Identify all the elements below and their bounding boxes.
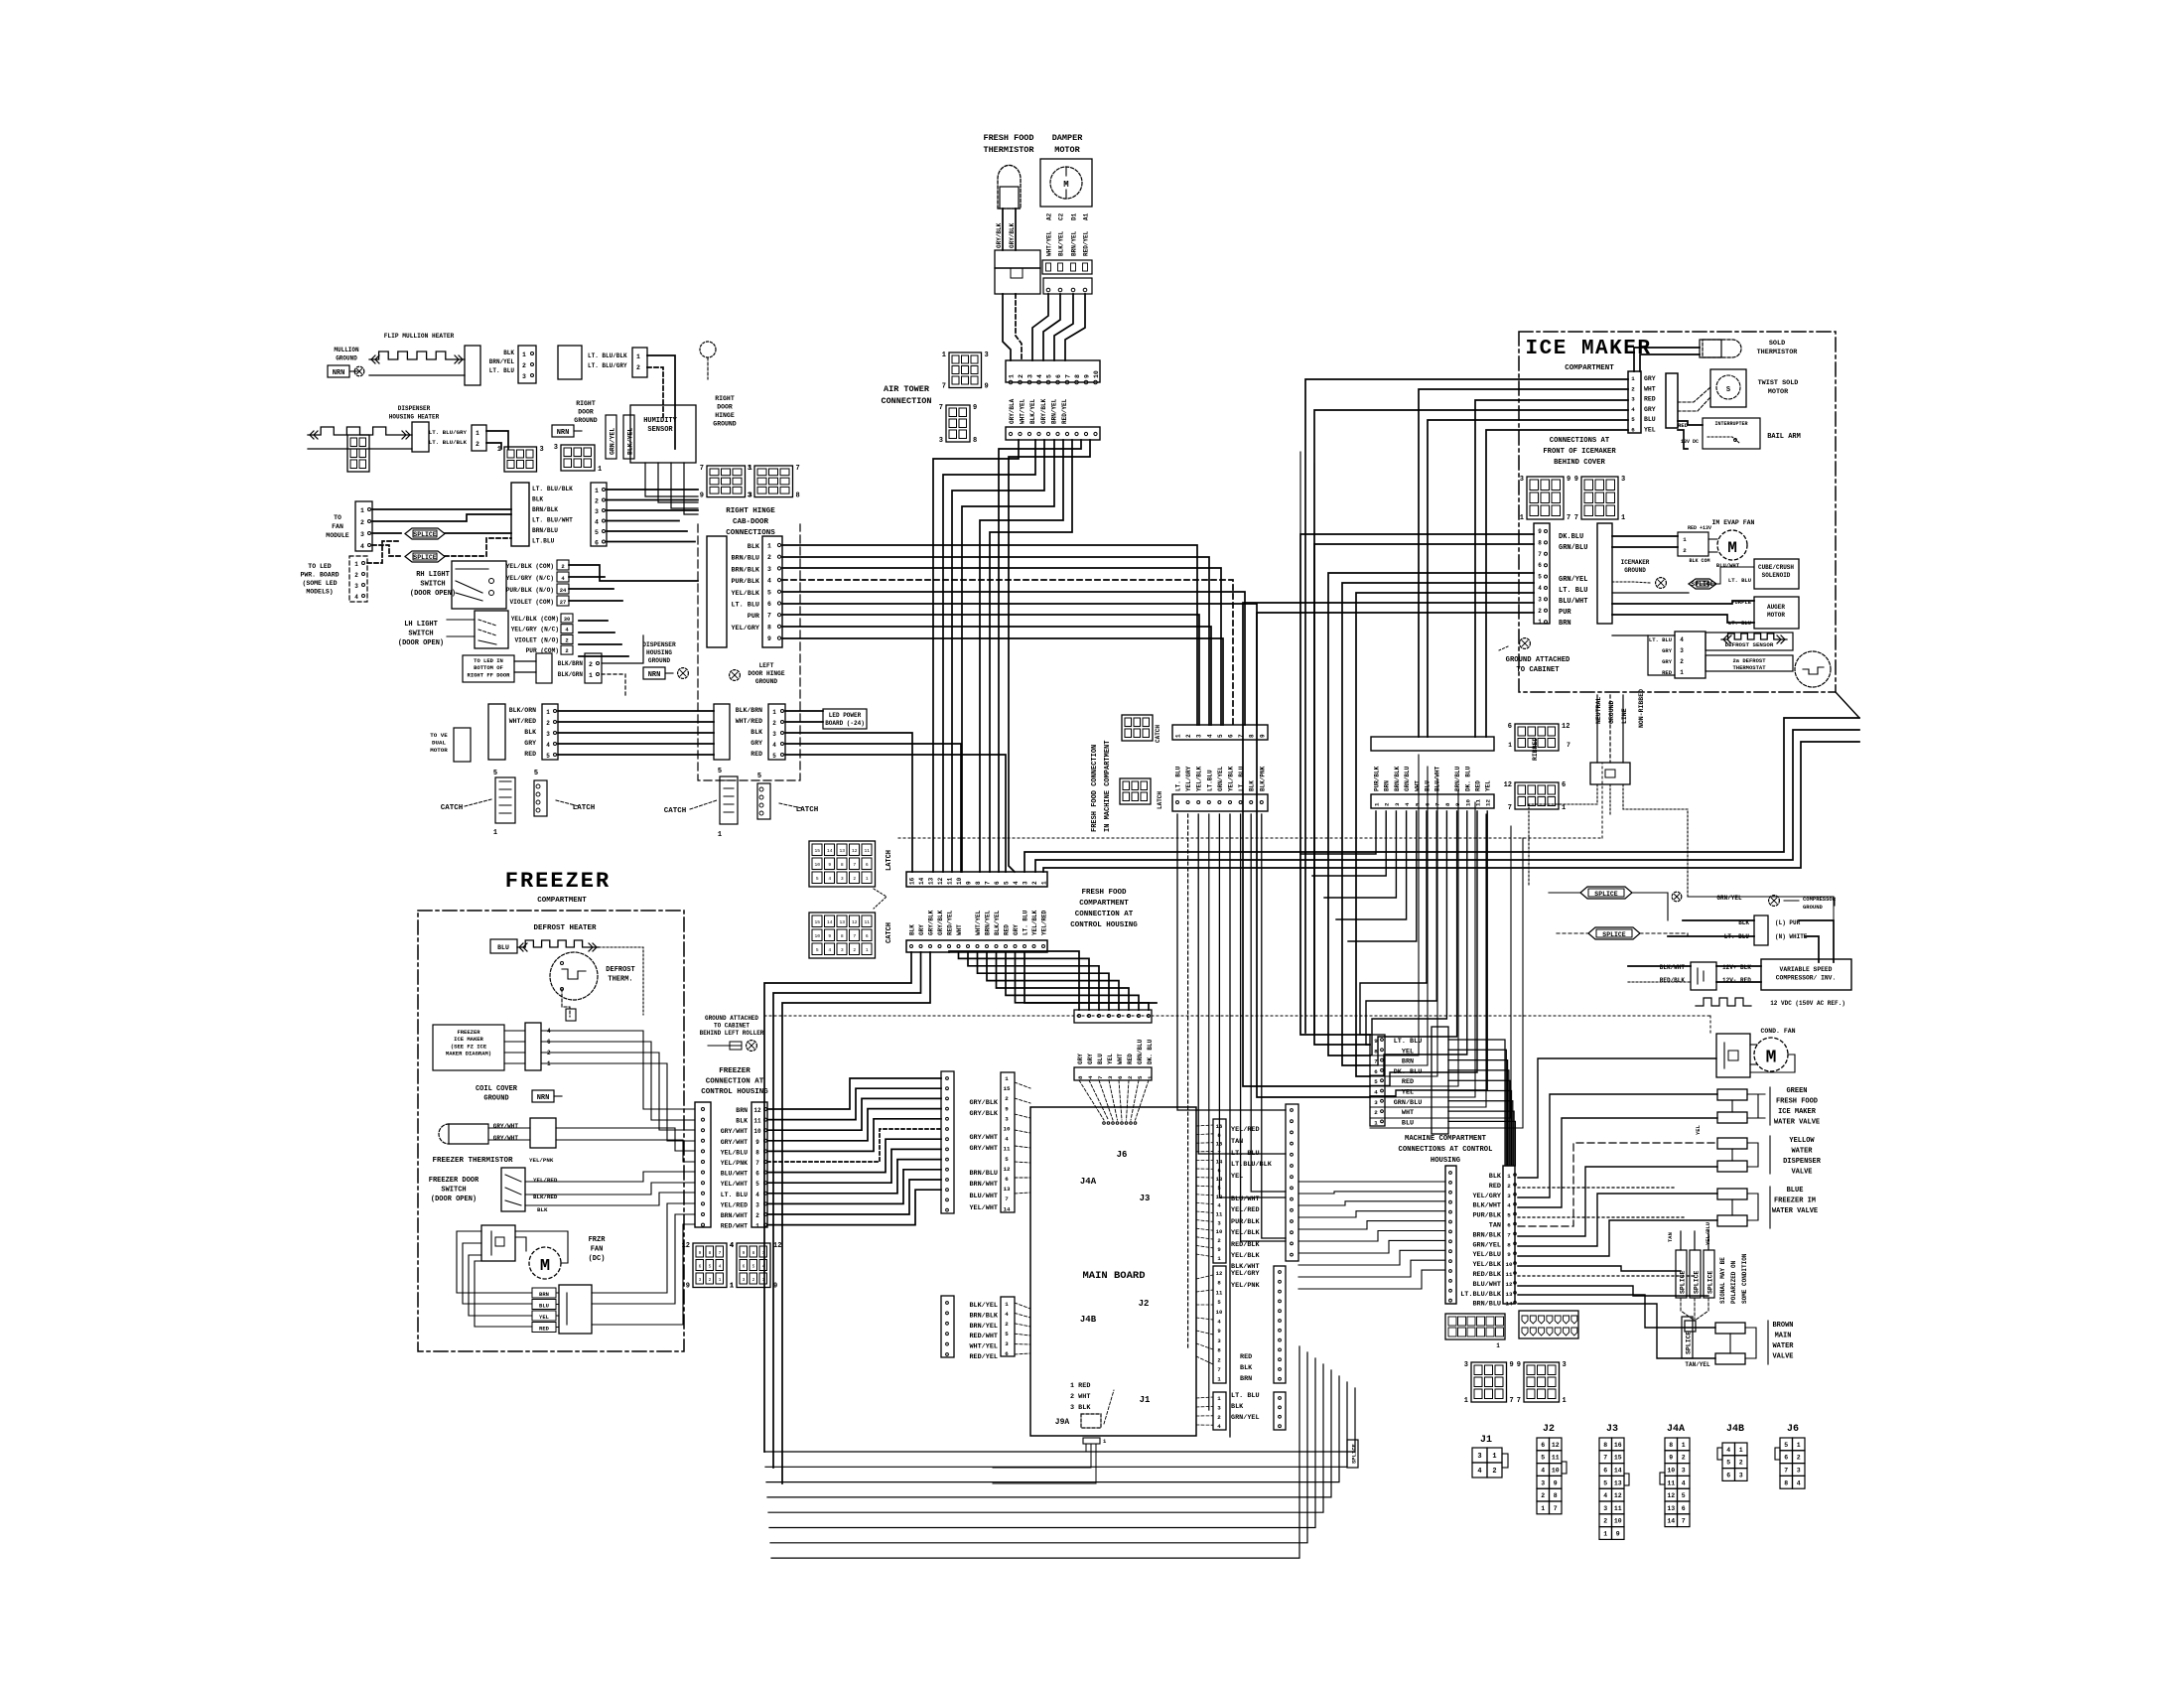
svg-text:(SEE FZ ICE: (SEE FZ ICE xyxy=(451,1043,487,1050)
3x3 grid pair B xyxy=(1524,1362,1560,1402)
svg-text:LT.BLU: LT.BLU xyxy=(532,538,555,545)
svg-text:6: 6 xyxy=(1603,1468,1607,1475)
svg-text:7: 7 xyxy=(1510,1397,1514,1405)
svg-text:1: 1 xyxy=(730,1283,734,1291)
svg-text:8: 8 xyxy=(1077,1075,1084,1079)
svg-text:BLK/BRN: BLK/BRN xyxy=(558,660,584,667)
wires freezer components to strip xyxy=(541,1031,695,1109)
svg-text:5: 5 xyxy=(1046,374,1053,378)
ice maker grid connector B xyxy=(1581,477,1618,519)
wires freezer fan loop xyxy=(457,1231,532,1293)
fan module connector xyxy=(355,501,372,551)
svg-text:8: 8 xyxy=(1538,539,1542,546)
svg-text:3: 3 xyxy=(1520,476,1524,484)
svg-text:9: 9 xyxy=(828,862,831,868)
svg-text:GROUND: GROUND xyxy=(1803,904,1824,911)
svg-text:1: 1 xyxy=(1374,1119,1378,1126)
svg-text:WHT: WHT xyxy=(1644,385,1656,392)
svg-text:LT. BLU: LT. BLU xyxy=(1728,577,1751,584)
svg-text:GROUND: GROUND xyxy=(755,678,778,685)
to ve dual motor connector xyxy=(454,728,471,762)
svg-text:TAN: TAN xyxy=(1489,1222,1501,1230)
svg-text:BRN/BLK: BRN/BLK xyxy=(1472,1231,1501,1239)
svg-text:7: 7 xyxy=(719,1250,722,1256)
svg-text:FLIP MULLION HEATER: FLIP MULLION HEATER xyxy=(384,333,455,340)
svg-text:TO VE: TO VE xyxy=(430,732,448,739)
svg-text:14: 14 xyxy=(827,919,833,925)
svg-text:2: 2 xyxy=(1683,547,1687,554)
svg-text:7: 7 xyxy=(1784,1468,1788,1475)
dotted long ground runs xyxy=(898,837,1602,839)
svg-text:GRY/WHT: GRY/WHT xyxy=(493,1135,519,1142)
svg-text:6: 6 xyxy=(595,540,599,547)
svg-text:GRY: GRY xyxy=(751,740,762,747)
svg-text:4: 4 xyxy=(755,1192,759,1198)
svg-text:4: 4 xyxy=(1206,734,1213,738)
svg-text:DK. BLU: DK. BLU xyxy=(1147,1039,1154,1064)
freezer thermistor capsule xyxy=(449,1124,488,1144)
svg-text:11: 11 xyxy=(864,848,870,854)
freezer grid connector mottled A xyxy=(693,1243,727,1288)
tiny dense connector xyxy=(347,435,369,472)
svg-text:9: 9 xyxy=(1574,476,1578,484)
svg-text:7: 7 xyxy=(1507,1231,1511,1238)
svg-text:1: 1 xyxy=(755,1223,759,1230)
svg-text:DUAL: DUAL xyxy=(432,740,446,747)
svg-text:2: 2 xyxy=(476,441,479,448)
svg-text:2: 2 xyxy=(853,876,856,882)
svg-text:FRESH FOOD CONNECTION: FRESH FOOD CONNECTION xyxy=(1091,745,1099,832)
svg-text:12: 12 xyxy=(1504,781,1512,789)
svg-text:6: 6 xyxy=(994,881,1001,885)
svg-text:6: 6 xyxy=(743,1263,746,1269)
cond fan connector xyxy=(1716,1034,1750,1077)
svg-text:J4A: J4A xyxy=(1667,1424,1685,1435)
heater terminal box xyxy=(465,346,480,385)
svg-text:BLUE: BLUE xyxy=(1787,1187,1804,1195)
svg-text:SIGNAL MAY BE: SIGNAL MAY BE xyxy=(1719,1257,1726,1304)
svg-text:13: 13 xyxy=(928,877,935,885)
svg-text:PUR/BLK: PUR/BLK xyxy=(1231,1218,1260,1226)
svg-text:COMPRESSOR/ INV.: COMPRESSOR/ INV. xyxy=(1776,975,1836,982)
svg-text:5: 5 xyxy=(1005,1156,1009,1163)
svg-text:A1: A1 xyxy=(1083,212,1090,220)
svg-text:1: 1 xyxy=(497,446,501,454)
svg-text:RED/BLK: RED/BLK xyxy=(1660,977,1686,984)
svg-text:J1: J1 xyxy=(1140,1395,1151,1405)
svg-text:YEL/WHT: YEL/WHT xyxy=(721,1181,748,1188)
svg-text:DK.BLU: DK.BLU xyxy=(1559,533,1583,541)
svg-text:GRY: GRY xyxy=(1087,1054,1094,1064)
center junction pin connector xyxy=(591,483,607,546)
svg-text:2: 2 xyxy=(1603,1518,1607,1525)
catch symbol 2 xyxy=(720,776,738,824)
svg-text:LT. BLU: LT. BLU xyxy=(721,1192,748,1198)
svg-text:9: 9 xyxy=(743,1250,746,1256)
svg-text:BRN/BLU: BRN/BLU xyxy=(1472,1301,1501,1309)
svg-text:SWITCH: SWITCH xyxy=(408,631,433,638)
svg-text:4: 4 xyxy=(767,578,771,585)
ac line connector xyxy=(1590,763,1630,784)
svg-text:CAB-DOOR: CAB-DOOR xyxy=(733,518,769,526)
svg-text:RED: RED xyxy=(1678,422,1689,429)
svg-text:RED/YEL: RED/YEL xyxy=(1061,398,1068,424)
defrost thermostat symbol xyxy=(1795,651,1831,687)
svg-text:TO LED IN: TO LED IN xyxy=(474,657,503,664)
frzr fan motor xyxy=(529,1247,561,1279)
svg-text:LATCH: LATCH xyxy=(1157,791,1163,809)
svg-text:1: 1 xyxy=(718,831,722,839)
svg-text:IM EVAP FAN: IM EVAP FAN xyxy=(1712,519,1755,526)
LT BLU block pin strip xyxy=(1370,1035,1385,1126)
svg-text:2a DEFROST: 2a DEFROST xyxy=(1732,657,1766,664)
svg-text:15: 15 xyxy=(814,919,820,925)
svg-text:BLK: BLK xyxy=(1231,1403,1244,1411)
air tower strip 2 xyxy=(1006,427,1100,440)
svg-text:J1: J1 xyxy=(1480,1435,1492,1446)
rh switch pins xyxy=(557,560,569,570)
svg-text:MOTOR: MOTOR xyxy=(430,747,448,754)
svg-text:GROUND: GROUND xyxy=(1608,700,1615,724)
svg-text:2: 2 xyxy=(1680,658,1684,665)
svg-text:SPLICE: SPLICE xyxy=(1594,891,1618,898)
sold thermistor capsule xyxy=(1703,340,1741,357)
svg-text:9: 9 xyxy=(700,492,704,500)
svg-text:YEL/GRY: YEL/GRY xyxy=(731,625,759,633)
svg-text:BLU: BLU xyxy=(539,1303,549,1310)
svg-text:J3: J3 xyxy=(1606,1424,1618,1435)
svg-text:GRY/WHT: GRY/WHT xyxy=(721,1139,748,1146)
svg-text:7: 7 xyxy=(1217,1366,1220,1373)
svg-text:PUR/BLK: PUR/BLK xyxy=(731,578,759,586)
svg-text:1: 1 xyxy=(1464,1397,1468,1405)
svg-text:5: 5 xyxy=(493,770,497,777)
svg-text:4: 4 xyxy=(772,742,776,749)
led row connector 2 xyxy=(542,704,558,760)
machine housing strip left bar xyxy=(1445,1166,1456,1304)
svg-text:3: 3 xyxy=(1621,476,1625,484)
svg-text:MAKER DIAGRAM): MAKER DIAGRAM) xyxy=(446,1051,491,1057)
svg-text:LT. BLU/BLK: LT. BLU/BLK xyxy=(588,352,627,359)
svg-text:RED: RED xyxy=(751,751,762,758)
dispenser housing ground lug xyxy=(643,667,665,679)
svg-text:DOOR: DOOR xyxy=(578,409,594,416)
svg-text:7: 7 xyxy=(755,1160,759,1167)
svg-text:RED: RED xyxy=(1489,1183,1501,1191)
svg-text:3: 3 xyxy=(546,731,550,738)
svg-text:8: 8 xyxy=(841,933,844,939)
im evap fan connector xyxy=(1678,532,1708,556)
svg-text:5: 5 xyxy=(1541,1455,1545,1462)
svg-text:2: 2 xyxy=(589,661,593,668)
svg-text:BLK: BLK xyxy=(1489,1173,1502,1181)
svg-text:(SOME LED: (SOME LED xyxy=(302,580,337,587)
svg-text:15: 15 xyxy=(1614,1455,1622,1462)
pwm waveform symbol xyxy=(1696,998,1751,1006)
J1 reference grid xyxy=(1472,1448,1487,1463)
svg-text:MOTOR: MOTOR xyxy=(1054,145,1080,155)
svg-text:5: 5 xyxy=(1538,574,1542,581)
svg-text:LT. BLU/GRY: LT. BLU/GRY xyxy=(429,429,468,436)
svg-text:LT.BLU: LT.BLU xyxy=(1206,770,1213,791)
svg-text:1: 1 xyxy=(1520,514,1524,522)
svg-text:3: 3 xyxy=(354,583,358,590)
svg-text:5: 5 xyxy=(767,589,771,596)
led pwr connector dashed xyxy=(349,556,367,602)
svg-text:9: 9 xyxy=(773,1283,777,1291)
svg-text:FRONT OF ICEMAKER: FRONT OF ICEMAKER xyxy=(1543,448,1616,456)
svg-text:7: 7 xyxy=(1508,804,1512,812)
svg-text:1: 1 xyxy=(866,947,869,953)
svg-text:A2: A2 xyxy=(1046,212,1053,220)
svg-text:S: S xyxy=(1726,386,1730,394)
svg-text:NRN: NRN xyxy=(333,369,345,377)
svg-text:MAIN BOARD: MAIN BOARD xyxy=(1082,1270,1145,1282)
svg-text:1: 1 xyxy=(1217,1395,1221,1402)
svg-text:FREEZER: FREEZER xyxy=(719,1067,751,1075)
led row left connector xyxy=(488,704,505,760)
svg-text:5: 5 xyxy=(1217,734,1224,738)
svg-text:3: 3 xyxy=(540,446,544,454)
freezer compartment box xyxy=(418,911,684,1351)
svg-text:CATCH: CATCH xyxy=(441,804,464,812)
svg-text:10: 10 xyxy=(1667,1468,1675,1475)
freezer connection strip right xyxy=(751,1102,767,1227)
svg-text:3: 3 xyxy=(1005,1115,1009,1122)
svg-text:RED: RED xyxy=(1402,1078,1414,1086)
ff machine strip bottom bar xyxy=(1172,794,1268,811)
svg-text:BRN/BLK: BRN/BLK xyxy=(969,1312,998,1320)
svg-text:1: 1 xyxy=(719,1277,722,1283)
machine strip MC top bar xyxy=(1371,737,1494,751)
svg-text:BLK/WHT: BLK/WHT xyxy=(1472,1202,1501,1210)
svg-text:6: 6 xyxy=(1784,1455,1788,1462)
svg-text:8: 8 xyxy=(709,1250,712,1256)
splice trio arrows xyxy=(1681,1298,1695,1321)
svg-text:9: 9 xyxy=(767,635,771,642)
svg-text:2: 2 xyxy=(1492,1468,1496,1476)
svg-text:6: 6 xyxy=(767,601,771,608)
svg-text:(DOOR OPEN): (DOOR OPEN) xyxy=(410,590,456,598)
svg-text:M: M xyxy=(1727,539,1737,557)
machine housing strip pin bar xyxy=(1503,1166,1515,1304)
svg-text:LT. BLU/BLK: LT. BLU/BLK xyxy=(532,486,573,492)
svg-text:PUR/BLK: PUR/BLK xyxy=(1374,766,1381,791)
svg-text:2: 2 xyxy=(561,563,564,570)
svg-text:2: 2 xyxy=(1127,1075,1134,1079)
svg-text:BLK/ORN: BLK/ORN xyxy=(509,707,536,714)
svg-text:2: 2 xyxy=(1384,802,1391,806)
svg-text:COIL COVER: COIL COVER xyxy=(476,1085,518,1093)
svg-text:9: 9 xyxy=(1669,1455,1673,1462)
splice hex 1 xyxy=(405,528,445,539)
svg-text:13: 13 xyxy=(1614,1479,1622,1486)
J9A pigtail bar xyxy=(1083,1438,1100,1444)
svg-text:YEL/BLK (COM): YEL/BLK (COM) xyxy=(506,563,554,570)
svg-text:VIOLET (N/O): VIOLET (N/O) xyxy=(514,636,559,643)
to led bottom right ff door box xyxy=(463,655,514,682)
svg-text:YEL: YEL xyxy=(1107,1054,1114,1064)
ice maker grid connector A xyxy=(1527,477,1564,519)
svg-text:LINE: LINE xyxy=(1621,708,1628,724)
svg-text:10: 10 xyxy=(814,933,820,939)
svg-text:J9A: J9A xyxy=(1055,1418,1070,1427)
yellow valve coils xyxy=(1717,1138,1747,1149)
svg-text:TAN: TAN xyxy=(1231,1138,1243,1146)
svg-text:2: 2 xyxy=(1005,1321,1009,1328)
svg-text:FREEZER: FREEZER xyxy=(505,869,611,894)
svg-text:3: 3 xyxy=(1027,374,1034,378)
svg-text:J6: J6 xyxy=(1787,1424,1799,1435)
svg-text:WHT/RED: WHT/RED xyxy=(736,718,762,725)
svg-text:CONNECTIONS AT: CONNECTIONS AT xyxy=(1550,437,1610,445)
svg-text:GRN/YEL: GRN/YEL xyxy=(1231,1414,1260,1422)
svg-text:IN MACHINE COMPARTMENT: IN MACHINE COMPARTMENT xyxy=(1104,741,1112,832)
svg-text:YEL/RED: YEL/RED xyxy=(1231,1126,1260,1134)
dashed wires to twist motor xyxy=(1678,387,1710,402)
svg-text:1: 1 xyxy=(866,876,869,882)
svg-text:1: 1 xyxy=(595,488,599,494)
svg-text:BLU/WHT: BLU/WHT xyxy=(1472,1281,1501,1289)
center junction connector xyxy=(511,483,529,546)
splice on bottom bundle xyxy=(1347,1440,1358,1468)
svg-text:11: 11 xyxy=(1216,1211,1223,1218)
svg-text:5: 5 xyxy=(752,1263,755,1269)
svg-text:SWITCH: SWITCH xyxy=(420,581,445,589)
svg-text:3: 3 xyxy=(767,566,771,573)
svg-text:LT.BLU/BLK: LT.BLU/BLK xyxy=(1231,1161,1273,1169)
auger motor box xyxy=(1754,597,1799,629)
compressor ground lug xyxy=(1769,896,1780,907)
svg-text:4: 4 xyxy=(1507,1202,1511,1209)
svg-text:3: 3 xyxy=(772,731,776,738)
svg-text:3: 3 xyxy=(1196,734,1203,738)
svg-text:WHT: WHT xyxy=(956,924,963,935)
svg-text:YEL/BLK: YEL/BLK xyxy=(731,590,759,598)
svg-text:2: 2 xyxy=(752,1277,755,1283)
svg-text:YEL/PNK: YEL/PNK xyxy=(529,1157,554,1164)
svg-text:4: 4 xyxy=(1726,1447,1730,1454)
svg-text:1: 1 xyxy=(1621,514,1625,522)
svg-text:12: 12 xyxy=(1485,799,1492,806)
svg-text:BLK/YEL: BLK/YEL xyxy=(627,428,634,455)
svg-text:FREEZER DOOR: FREEZER DOOR xyxy=(429,1177,479,1185)
svg-text:6: 6 xyxy=(1005,1350,1009,1357)
freezer fan bottom labels xyxy=(532,1288,556,1298)
J2 dashed fan xyxy=(1196,1275,1213,1279)
svg-text:2: 2 xyxy=(1538,608,1542,615)
svg-text:3: 3 xyxy=(1507,1193,1511,1199)
svg-text:J4B: J4B xyxy=(1726,1424,1744,1435)
compressor pigtail connector xyxy=(1754,915,1768,945)
svg-text:GRY/BLK: GRY/BLK xyxy=(969,1099,998,1107)
svg-text:7: 7 xyxy=(1682,1518,1686,1525)
svg-text:8: 8 xyxy=(1603,1442,1607,1449)
right hinge dashed boundary xyxy=(698,524,800,780)
svg-text:YEL/PNK: YEL/PNK xyxy=(721,1160,748,1167)
svg-text:RIGHT: RIGHT xyxy=(576,400,596,407)
svg-text:YEL: YEL xyxy=(539,1314,550,1321)
ff machine strip top bar xyxy=(1172,725,1268,740)
svg-text:1: 1 xyxy=(1603,1531,1607,1538)
svg-text:5: 5 xyxy=(1784,1442,1788,1449)
svg-text:6: 6 xyxy=(1508,723,1512,731)
svg-text:3: 3 xyxy=(748,465,751,473)
svg-text:27: 27 xyxy=(560,599,567,606)
svg-text:4: 4 xyxy=(1797,1479,1801,1486)
humidity sensor box xyxy=(630,405,696,463)
svg-text:3: 3 xyxy=(841,876,844,882)
svg-text:1: 1 xyxy=(476,430,479,437)
wires below fresh food strip xyxy=(949,951,1079,1010)
svg-text:2: 2 xyxy=(546,720,550,727)
svg-text:C2: C2 xyxy=(1058,212,1065,220)
svg-text:11: 11 xyxy=(1004,1146,1011,1153)
svg-text:1: 1 xyxy=(1041,881,1048,885)
svg-text:24: 24 xyxy=(560,587,567,594)
svg-text:GRY: GRY xyxy=(1077,1054,1084,1064)
svg-text:ICE MAKER: ICE MAKER xyxy=(454,1036,483,1043)
svg-text:BOTTOM OF: BOTTOM OF xyxy=(474,664,503,671)
svg-text:TAN: TAN xyxy=(1667,1232,1674,1242)
freezer thermistor connector xyxy=(530,1118,556,1148)
svg-text:4: 4 xyxy=(1680,636,1684,643)
svg-text:NON-RIBBED: NON-RIBBED xyxy=(1638,689,1645,728)
svg-text:4: 4 xyxy=(354,594,358,601)
wires mullion to hinge xyxy=(647,355,675,449)
wire bundle to ice maker connector xyxy=(1305,379,1628,1033)
svg-text:BRN/WHT: BRN/WHT xyxy=(969,1181,998,1189)
svg-text:1: 1 xyxy=(767,543,771,550)
svg-text:2: 2 xyxy=(1507,1183,1511,1190)
wires LT BLU block right then down to machine housing top xyxy=(1448,1040,1505,1166)
svg-text:BLU: BLU xyxy=(497,944,509,951)
svg-text:TO CABINET: TO CABINET xyxy=(714,1023,750,1030)
svg-text:BLK/YEL: BLK/YEL xyxy=(1058,230,1065,256)
svg-text:3 BLK: 3 BLK xyxy=(1070,1404,1091,1412)
svg-text:BLK/PNK: BLK/PNK xyxy=(1259,766,1266,791)
svg-text:13: 13 xyxy=(839,848,845,854)
catch symbol 1 xyxy=(495,777,515,823)
svg-text:6: 6 xyxy=(1005,1176,1009,1183)
svg-text:8: 8 xyxy=(752,1250,755,1256)
svg-text:LEFT: LEFT xyxy=(759,662,774,669)
svg-text:BLK: BLK xyxy=(736,1118,748,1125)
svg-text:3: 3 xyxy=(1631,396,1635,403)
svg-text:5: 5 xyxy=(1726,1460,1730,1467)
svg-text:COMPARTMENT: COMPARTMENT xyxy=(537,897,587,905)
lh switch pins xyxy=(561,614,573,623)
svg-text:1: 1 xyxy=(1005,1301,1009,1308)
svg-text:YEL/BLU: YEL/BLU xyxy=(1472,1251,1501,1259)
svg-text:3: 3 xyxy=(1680,647,1684,654)
svg-text:ICE MAKER: ICE MAKER xyxy=(1526,338,1652,360)
svg-text:3: 3 xyxy=(522,373,526,380)
svg-text:TO: TO xyxy=(334,514,341,521)
svg-text:PWR. BOARD: PWR. BOARD xyxy=(300,572,339,579)
svg-text:DEFROST SENSOR: DEFROST SENSOR xyxy=(1725,641,1774,648)
svg-text:6: 6 xyxy=(866,933,869,939)
svg-text:DISPENSER: DISPENSER xyxy=(1783,1158,1822,1166)
svg-text:J4B: J4B xyxy=(1080,1315,1097,1325)
im evap fan motor xyxy=(1717,530,1747,560)
freezer fan bottom connector xyxy=(559,1285,592,1334)
svg-text:GRY/BLA: GRY/BLA xyxy=(1009,398,1016,424)
J6 header bottom bar xyxy=(1074,1067,1152,1080)
svg-text:AIR TOWER: AIR TOWER xyxy=(884,384,930,394)
svg-text:SPLICE: SPLICE xyxy=(1351,1443,1358,1464)
latch grid small 2 xyxy=(1120,778,1151,804)
